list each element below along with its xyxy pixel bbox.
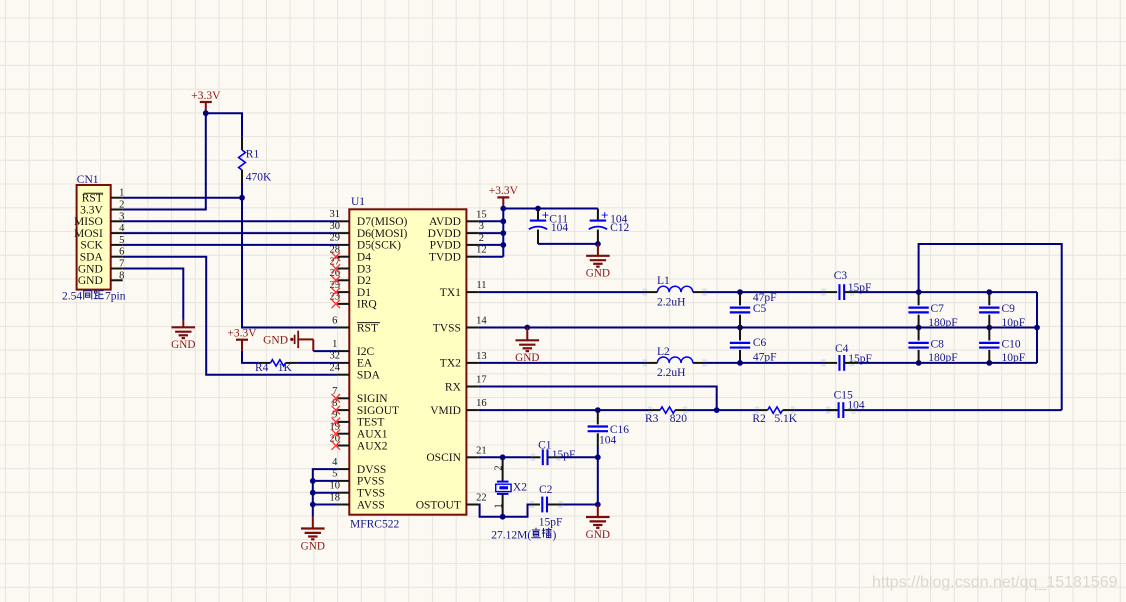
label R4 value 1K: [278, 362, 293, 374]
resistor R4: [259, 360, 297, 366]
label C5 designator: [753, 303, 767, 315]
label C7 value 180pF: [928, 317, 957, 329]
junction C16/C1: [595, 454, 601, 460]
svg-text:21: 21: [476, 445, 487, 456]
label L2 designator: [657, 346, 670, 358]
svg-text:2.2uH: 2.2uH: [657, 367, 685, 379]
capacitor C9: [979, 292, 999, 327]
svg-text:14: 14: [476, 316, 487, 327]
ground GND (below C12): [586, 244, 610, 280]
svg-text:10: 10: [330, 481, 341, 492]
svg-text:+3.3V: +3.3V: [227, 328, 257, 340]
svg-text:15pF: 15pF: [539, 516, 563, 528]
wire +3.3V right to R1 top: [206, 113, 242, 137]
label MFRC522 part name: [350, 519, 399, 531]
label C1 value 15pF: [552, 449, 576, 461]
svg-text:): ): [553, 529, 557, 541]
wire RX net: [479, 387, 717, 411]
junction X2 bottom: [500, 514, 506, 520]
label L2 value 2.2uH: [657, 367, 685, 379]
label C5 value 47pF: [753, 292, 777, 304]
label R1 designator: [246, 149, 260, 161]
junction TX2/C6: [737, 360, 743, 366]
wire TX2 to antenna: [858, 362, 1037, 364]
svg-text:+: +: [542, 207, 549, 222]
capacitor C3: [823, 284, 858, 300]
svg-text:R3: R3: [645, 413, 659, 425]
wire TVSS net: [479, 327, 1037, 329]
svg-text:10pF: 10pF: [1002, 317, 1026, 329]
svg-text:DVDD: DVDD: [428, 228, 461, 240]
wire SDA net: [123, 257, 338, 375]
ground GND (below CN1): [171, 320, 195, 352]
svg-text:D4: D4: [357, 252, 371, 264]
label X2 value 27.12M: [491, 528, 556, 541]
svg-text:3.3V: 3.3V: [80, 204, 103, 216]
wire MISO: [123, 220, 338, 222]
svg-text:3: 3: [479, 221, 484, 232]
junction PVDD tap: [500, 242, 506, 248]
svg-text:C2: C2: [539, 484, 553, 496]
label L1 designator: [657, 275, 670, 287]
capacitor C2: [531, 497, 563, 513]
svg-text:VMID: VMID: [430, 405, 461, 417]
svg-text:D5(SCK): D5(SCK): [357, 240, 401, 252]
svg-text:PVDD: PVDD: [430, 240, 461, 252]
svg-text:10pF: 10pF: [1002, 352, 1026, 364]
wire +3.3V to R4: [242, 351, 259, 363]
label C6 value 47pF: [753, 351, 777, 363]
crystal X2: [494, 457, 512, 516]
svg-text:15: 15: [476, 209, 487, 220]
label R2 value 5.1K: [774, 413, 797, 425]
wire VDD bus: [479, 209, 598, 257]
svg-text:30: 30: [330, 221, 341, 232]
junction C11 top tap: [535, 206, 541, 212]
no-connect mark pin 27 (D3): [332, 264, 341, 273]
svg-text:1K: 1K: [278, 362, 293, 374]
svg-text:C4: C4: [835, 343, 849, 355]
svg-text:32: 32: [330, 351, 341, 362]
watermark: [872, 574, 1118, 591]
capacitor C16: [588, 410, 608, 445]
svg-text:C7: C7: [931, 303, 945, 315]
junction TVSS right end: [1034, 325, 1040, 331]
svg-text:24: 24: [330, 363, 341, 374]
wire antenna outer: [919, 244, 1062, 410]
svg-text:C1: C1: [538, 439, 552, 451]
svg-text:AUX1: AUX1: [357, 429, 388, 441]
junction VMID/C16: [595, 407, 601, 413]
wire +3.3V down to CN1 pin 2: [123, 113, 206, 209]
label L1 value 2.2uH: [657, 297, 685, 309]
svg-text:TEST: TEST: [357, 417, 384, 429]
label CN1 designator: [77, 174, 99, 186]
wire TX1 from pin11: [479, 291, 645, 293]
wire RST down to U1 pin6: [242, 198, 337, 328]
svg-text:104: 104: [599, 435, 617, 447]
junction C2 right: [595, 502, 601, 508]
capacitor C8: [908, 328, 928, 363]
junction AVDD tap: [500, 218, 506, 224]
svg-text:MISO: MISO: [74, 216, 103, 228]
svg-text:4: 4: [332, 457, 338, 468]
wire C1 to C16 node: [560, 456, 598, 458]
label C2 value 15pF: [539, 516, 563, 528]
power +3.3V (VDD rail): [489, 185, 519, 208]
svg-text:U1: U1: [351, 196, 365, 208]
svg-text:17: 17: [476, 375, 487, 386]
capacitor C6: [730, 328, 750, 363]
no-connect mark pin 28 (D4): [332, 252, 341, 261]
svg-text:+3.3V: +3.3V: [191, 90, 221, 102]
ground GND (below C2): [586, 505, 610, 541]
svg-text:2: 2: [494, 465, 505, 470]
svg-text:SDA: SDA: [357, 370, 381, 382]
label C1 designator: [538, 439, 552, 451]
wire C2 to GND node: [562, 504, 598, 506]
junction DVDD tap: [500, 230, 506, 236]
capacitor C10: [979, 328, 999, 363]
svg-text:47pF: 47pF: [753, 351, 777, 363]
svg-text:TVSS: TVSS: [357, 488, 385, 500]
label R2 designator: [752, 413, 766, 425]
wire TX2 to C4: [705, 362, 823, 364]
label C8 value 180pF: [928, 352, 957, 364]
junction VMID/RX: [714, 407, 720, 413]
capacitor C5: [730, 292, 750, 327]
capacitor C12: [589, 207, 630, 244]
no-connect mark pin 25 (D1): [332, 288, 341, 297]
svg-text:GND: GND: [171, 339, 195, 351]
label C4 value 15pF: [848, 353, 872, 365]
svg-text:RST: RST: [357, 322, 378, 334]
wire R1 to RST node: [241, 183, 243, 198]
svg-text:TX1: TX1: [440, 287, 461, 299]
capacitor C15: [827, 402, 855, 418]
power ground bar symbol (I2C): [263, 331, 313, 351]
svg-text:RX: RX: [445, 381, 462, 393]
wire C16 to OSCIN line: [597, 445, 599, 457]
connector CN1: [74, 185, 125, 290]
no-connect mark pin 7 (SIGIN): [332, 394, 341, 403]
compile indicator marks: [530, 289, 856, 509]
junction TX1/C5: [737, 289, 743, 295]
capacitor C7: [908, 292, 928, 327]
svg-text:OSCIN: OSCIN: [426, 452, 461, 464]
svg-text:SIGIN: SIGIN: [357, 393, 388, 405]
junction TVSS/C5-C6: [737, 325, 743, 331]
svg-text:C3: C3: [834, 270, 848, 282]
label C9 designator: [1002, 303, 1016, 315]
junction +3.3V top node: [203, 110, 209, 116]
label C8 designator: [931, 339, 945, 351]
wire MOSI: [123, 232, 338, 234]
wire R4 to U1 pin32 EA: [297, 362, 337, 364]
wire OSCIN from pin21: [479, 456, 532, 458]
no-connect mark pin 8 (SIGOUT): [332, 406, 341, 415]
svg-text:D7(MISO): D7(MISO): [357, 216, 408, 228]
svg-text:C6: C6: [753, 337, 767, 349]
svg-text:GND: GND: [78, 263, 103, 275]
no-connect mark pin 19 (AUX1): [332, 429, 341, 438]
svg-text:GND: GND: [586, 268, 610, 280]
label R3 value 820: [670, 413, 688, 425]
label 2.54 pitch 7pin value: [62, 291, 126, 303]
junction TX1/C7: [916, 289, 922, 295]
svg-text:R4: R4: [255, 362, 269, 374]
svg-text:11: 11: [476, 280, 486, 291]
svg-text:1: 1: [332, 339, 337, 350]
svg-text:GND: GND: [263, 334, 288, 346]
svg-text:2.54: 2.54: [62, 291, 82, 303]
label C3 value 15pF: [848, 282, 872, 294]
svg-text:D2: D2: [357, 275, 371, 287]
svg-text:12: 12: [476, 245, 487, 256]
svg-text:13: 13: [476, 351, 487, 362]
label C6 designator: [753, 337, 767, 349]
no-connect mark pin 23 (IRQ): [332, 300, 341, 309]
inductor L1: [645, 286, 706, 292]
label C4 designator: [835, 343, 849, 355]
label C10 value 10pF: [1002, 352, 1026, 364]
wire VMID from pin16: [479, 409, 649, 411]
junction C12 bottom: [595, 241, 601, 247]
svg-text:18: 18: [330, 492, 341, 503]
power +3.3V (top left): [191, 90, 221, 113]
junction TX1/C9: [986, 289, 992, 295]
wire SCK: [123, 244, 338, 246]
svg-text:L1: L1: [657, 275, 670, 287]
label C15 value 104: [847, 399, 865, 411]
power +3.3V (R4): [227, 328, 257, 351]
svg-text:RST: RST: [82, 193, 103, 205]
junction TVSS/C9-C10: [986, 325, 992, 331]
label C10 designator: [1002, 339, 1021, 351]
svg-text:7pin: 7pin: [105, 291, 126, 303]
junction TX2/C10: [986, 360, 992, 366]
svg-text:16: 16: [476, 398, 487, 409]
svg-text:470K: 470K: [246, 171, 272, 183]
junction TVSS gnd tap: [524, 325, 530, 331]
svg-text:GND: GND: [301, 540, 325, 552]
svg-text:SIGOUT: SIGOUT: [357, 405, 399, 417]
svg-text:SCK: SCK: [80, 240, 103, 252]
svg-text:PVSS: PVSS: [357, 476, 385, 488]
ground GND (TVSS): [515, 328, 539, 365]
inductor L2: [645, 357, 706, 363]
label U1 designator: [351, 196, 365, 208]
svg-text:+3.3V: +3.3V: [489, 185, 519, 197]
junction AVSS tap: [310, 502, 316, 508]
wire CN1 pin7 to ground: [123, 269, 184, 320]
svg-text:820: 820: [670, 413, 688, 425]
label C9 value 10pF: [1002, 317, 1026, 329]
svg-text:180pF: 180pF: [928, 317, 957, 329]
resistor R1: [239, 137, 246, 183]
capacitor C4: [823, 355, 858, 371]
svg-text:MFRC522: MFRC522: [350, 519, 399, 531]
junction VDD bus top: [500, 206, 506, 212]
svg-text:MOSI: MOSI: [74, 228, 103, 240]
svg-text:8: 8: [119, 270, 124, 281]
svg-text:2.2uH: 2.2uH: [657, 297, 685, 309]
ic U1 MFRC522: [330, 209, 488, 515]
junction RST node below R1: [239, 195, 245, 201]
svg-text:CN1: CN1: [77, 174, 99, 186]
wire I2C pin1: [313, 350, 337, 352]
label C16 value 104: [599, 435, 617, 447]
svg-text:D6(MOSI): D6(MOSI): [357, 228, 408, 240]
no-connect mark pin 9 (TEST): [332, 418, 341, 427]
ground GND (AVSS): [301, 517, 325, 553]
label C7 designator: [931, 303, 945, 315]
wire RST from CN1 pin1: [123, 197, 242, 199]
svg-text:104: 104: [551, 222, 569, 234]
no-connect mark pin 26 (D2): [332, 276, 341, 285]
capacitor C1: [532, 449, 560, 465]
label C15 designator: [834, 390, 853, 402]
svg-text:27.12M(: 27.12M(: [491, 529, 531, 541]
svg-text:SDA: SDA: [80, 252, 104, 264]
svg-text:I2C: I2C: [357, 346, 375, 358]
svg-text:C9: C9: [1002, 303, 1016, 315]
svg-text:IRQ: IRQ: [357, 299, 378, 311]
svg-text:+: +: [601, 207, 608, 222]
svg-text:TVDD: TVDD: [429, 252, 461, 264]
svg-text:GND: GND: [78, 275, 103, 287]
svg-text:TVSS: TVSS: [433, 322, 461, 334]
label R3 designator: [645, 413, 659, 425]
svg-text:L2: L2: [657, 346, 670, 358]
wire C11 C12 bottom: [538, 243, 598, 245]
svg-text:https://blog.csdn.net/qq_15181: https://blog.csdn.net/qq_15181569: [872, 574, 1118, 591]
svg-text:29: 29: [330, 233, 341, 244]
svg-text:TX2: TX2: [440, 358, 461, 370]
svg-text:X2: X2: [513, 482, 527, 494]
junction TVSS tap: [310, 490, 316, 496]
svg-text:22: 22: [476, 493, 487, 504]
wire TX1 to C3: [705, 291, 823, 293]
svg-text:AVSS: AVSS: [357, 499, 385, 511]
wire OSTOUT from pin22: [479, 505, 531, 517]
svg-text:GND: GND: [586, 529, 610, 541]
junction PVSS tap: [310, 478, 316, 484]
svg-text:1: 1: [494, 503, 505, 508]
wire VMID to antenna outer: [855, 409, 1062, 411]
svg-text:5.1K: 5.1K: [774, 413, 797, 425]
label R1 value 470K: [246, 171, 272, 183]
resistor R2: [756, 407, 794, 413]
svg-text:AUX2: AUX2: [357, 440, 388, 452]
svg-text:OSTOUT: OSTOUT: [416, 499, 461, 511]
svg-text:C8: C8: [931, 339, 945, 351]
wire VMID mid: [687, 409, 756, 411]
svg-text:R2: R2: [752, 413, 766, 425]
svg-text:6: 6: [332, 315, 337, 326]
label C16 designator: [610, 424, 629, 436]
svg-text:DVSS: DVSS: [357, 464, 386, 476]
wire TX1 to antenna: [858, 291, 1037, 293]
svg-text:C10: C10: [1002, 339, 1021, 351]
capacitor C11: [529, 207, 569, 244]
wire antenna inner right: [1036, 292, 1038, 363]
svg-text:180pF: 180pF: [928, 352, 957, 364]
no-connect mark pin 20 (AUX2): [332, 441, 341, 450]
svg-text:AVDD: AVDD: [429, 216, 461, 228]
label C3 designator: [834, 270, 848, 282]
svg-text:D3: D3: [357, 263, 371, 275]
wire TX2 from pin13: [479, 362, 645, 364]
svg-text:5: 5: [332, 469, 337, 480]
wire DVSS/PVSS/TVSS/AVSS bus: [313, 469, 338, 516]
svg-text:2: 2: [479, 233, 484, 244]
svg-text:EA: EA: [357, 358, 373, 370]
svg-text:31: 31: [330, 209, 341, 220]
junction TVSS/C7-C8: [916, 325, 922, 331]
wire VMID to C15: [794, 409, 838, 411]
junction TX2/C8: [916, 360, 922, 366]
svg-text:D1: D1: [357, 287, 371, 299]
svg-text:C5: C5: [753, 303, 767, 315]
svg-text:R1: R1: [246, 149, 260, 161]
wire down to C2 line: [597, 457, 599, 504]
resistor R3: [648, 407, 686, 413]
label C2 designator: [539, 484, 553, 496]
svg-text:15pF: 15pF: [552, 449, 576, 461]
junction OSCIN/X2: [500, 454, 506, 460]
svg-text:C12: C12: [610, 222, 629, 234]
label R4 designator: [255, 362, 269, 374]
label X2 designator: [513, 482, 527, 494]
